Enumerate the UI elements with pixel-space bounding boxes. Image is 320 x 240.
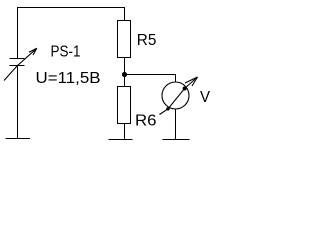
wire down to R5 xyxy=(124,7,126,21)
svg-text:U=11,5B: U=11,5B xyxy=(36,70,101,87)
needle crossing dot upper xyxy=(183,87,187,91)
wire R6 to ground xyxy=(124,124,126,140)
wire voltmeter to ground xyxy=(175,109,177,140)
wire junction to voltmeter xyxy=(125,74,177,76)
ground R6 xyxy=(109,139,133,141)
resistor R6 xyxy=(118,87,131,124)
wire voltmeter drop xyxy=(175,74,177,83)
ground voltmeter xyxy=(163,139,190,141)
svg-text:PS-1: PS-1 xyxy=(51,44,81,61)
junction node dot xyxy=(122,72,127,77)
capacitor PS-1 variable arrow xyxy=(4,48,37,80)
wire left vertical upper xyxy=(17,7,19,59)
svg-text:R6: R6 xyxy=(135,112,157,129)
resistor R5 xyxy=(118,21,131,58)
capacitor PS-1 plate top xyxy=(10,58,25,60)
voltmeter V1 circle xyxy=(162,82,189,109)
voltmeter needle arrow xyxy=(160,77,198,115)
svg-text:R5: R5 xyxy=(137,32,157,49)
wire R5 to R6 xyxy=(124,58,126,88)
wire left vertical lower xyxy=(17,66,19,139)
capacitor PS-1 plate bottom xyxy=(10,65,25,67)
wire top horizontal xyxy=(17,7,125,9)
needle crossing dot lower xyxy=(166,107,169,110)
svg-text:V: V xyxy=(200,89,210,106)
ground left xyxy=(6,138,31,140)
